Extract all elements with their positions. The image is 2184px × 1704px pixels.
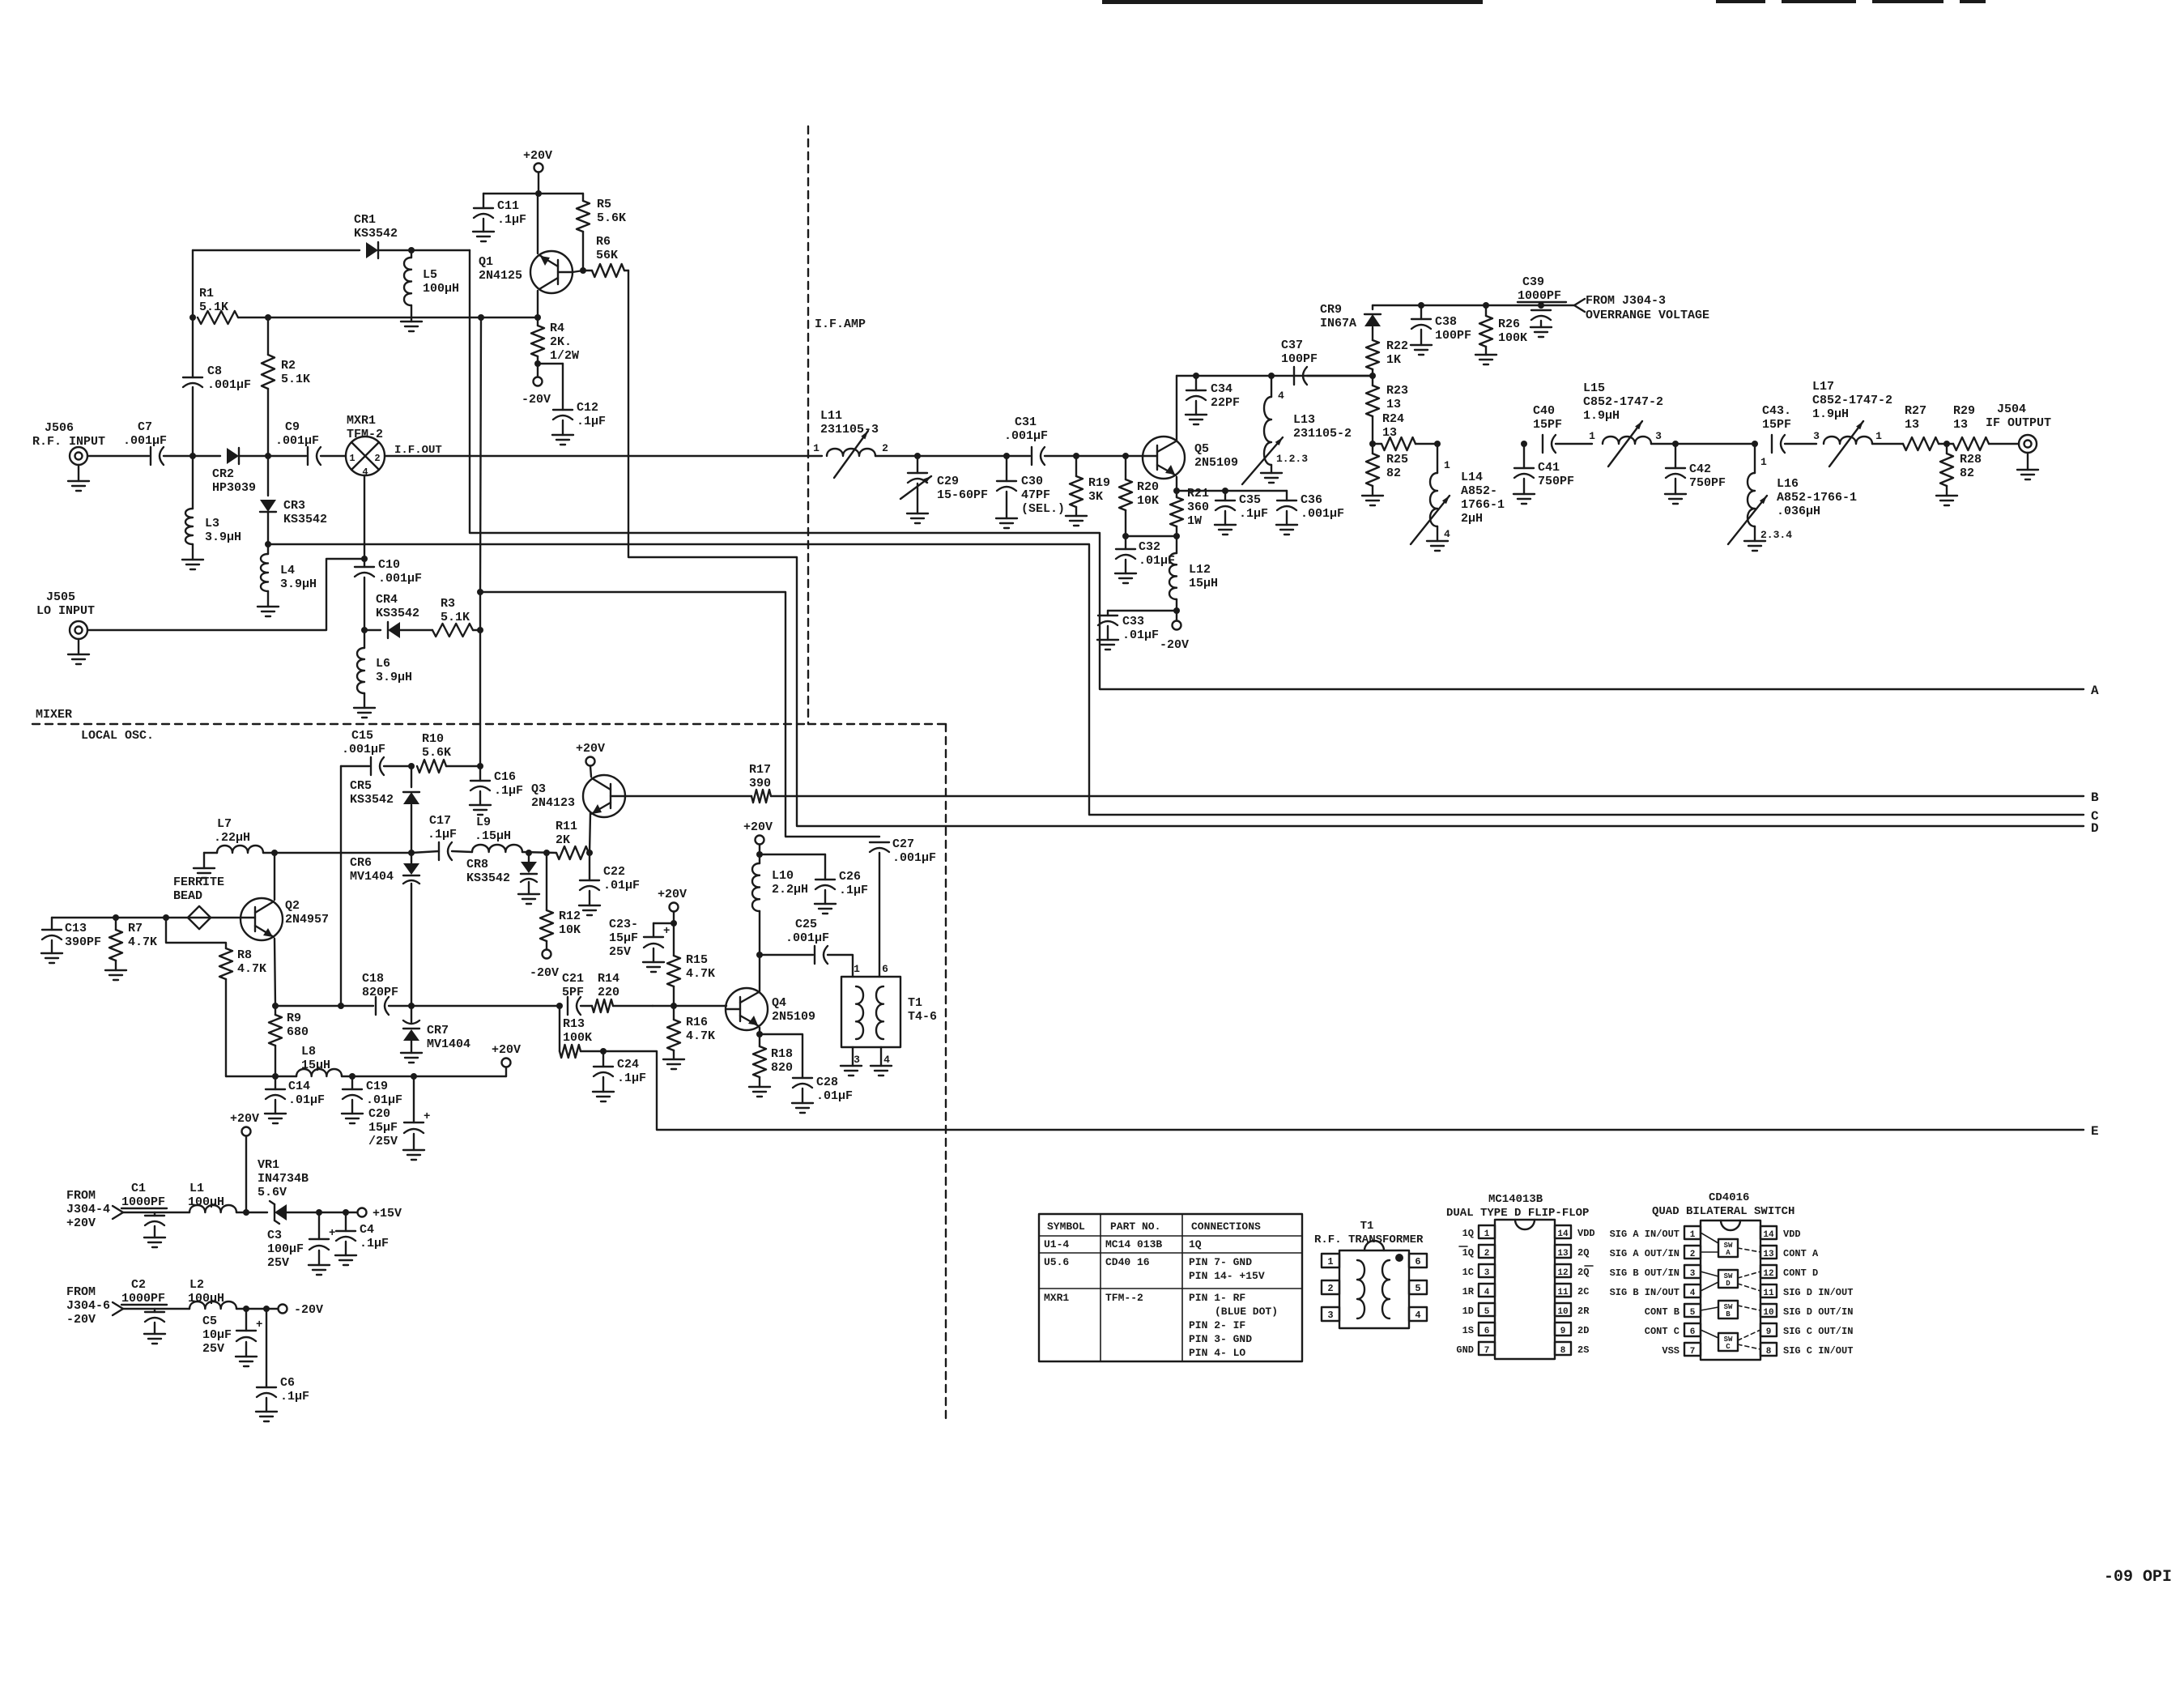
svg-text:KS3542: KS3542 — [354, 227, 398, 241]
svg-text:3: 3 — [854, 1054, 860, 1066]
capacitor C28 .01uF — [760, 1034, 803, 1078]
svg-text:R10: R10 — [422, 732, 444, 746]
svg-text:C30: C30 — [1021, 475, 1043, 488]
svg-text:C33: C33 — [1122, 615, 1144, 628]
svg-text:SIG D OUT/IN: SIG D OUT/IN — [1783, 1306, 1853, 1318]
svg-text:15μF: 15μF — [368, 1121, 398, 1135]
svg-text:.01μF: .01μF — [603, 879, 640, 892]
node junction C34 — [1193, 373, 1199, 379]
inductor L13 231105-2 variable — [1271, 376, 1272, 397]
inductor L14 A852-1766-1 2uH variable — [1437, 444, 1438, 473]
ground at C1 — [154, 1226, 155, 1238]
svg-text:C23-: C23- — [609, 918, 638, 931]
node junction C29 — [914, 453, 921, 459]
ground at L7 — [204, 852, 217, 854]
svg-text:R1: R1 — [199, 287, 214, 300]
node junction C42 — [1672, 441, 1679, 447]
ground at C5 — [245, 1342, 247, 1357]
capacitor C19 .01uF — [351, 1076, 353, 1089]
ground at R28 — [1946, 486, 1948, 496]
svg-text:7: 7 — [1484, 1346, 1490, 1356]
svg-text:.036μH: .036μH — [1777, 505, 1820, 518]
svg-text:5.6K: 5.6K — [597, 211, 626, 225]
svg-text:56K: 56K — [596, 249, 618, 262]
diode CR2 HP3039 — [193, 455, 220, 457]
svg-text:C24: C24 — [617, 1058, 639, 1071]
svg-text:680: 680 — [287, 1025, 309, 1039]
capacitor C14 .01uF — [275, 1076, 276, 1089]
bus D from R6 — [628, 271, 2084, 826]
capacitor C24 .1uF — [602, 1051, 604, 1067]
svg-text:C1: C1 — [131, 1182, 146, 1195]
svg-text:KS3542: KS3542 — [466, 871, 510, 885]
diode CR5 KS3542 — [411, 766, 412, 787]
svg-text:R3: R3 — [441, 597, 455, 611]
svg-text:15μH: 15μH — [301, 1059, 330, 1072]
svg-text:CD4016: CD4016 — [1709, 1191, 1749, 1204]
svg-text:T4-6: T4-6 — [908, 1010, 937, 1024]
svg-text:2N5109: 2N5109 — [1194, 456, 1238, 470]
svg-text:C14: C14 — [288, 1080, 310, 1093]
svg-text:1000PF: 1000PF — [121, 1292, 165, 1306]
terminal -20V below R12 — [546, 941, 547, 949]
inductor L7 .22uH — [217, 846, 263, 853]
svg-text:C34: C34 — [1211, 382, 1232, 396]
dashed boundary MIXER horizontal — [32, 723, 808, 725]
svg-text:4: 4 — [1690, 1289, 1696, 1298]
svg-text:2: 2 — [374, 453, 380, 464]
resistor R22 1K — [1366, 340, 1379, 369]
node junction Q4 emitter — [756, 1031, 763, 1037]
node junction C10 top / mixer pin4 — [361, 556, 368, 562]
svg-text:C4: C4 — [360, 1223, 374, 1237]
capacitor C15 .001uF — [341, 765, 369, 767]
svg-text:R28: R28 — [1960, 453, 1982, 466]
node junction CR3/L4/bus C — [265, 541, 271, 547]
svg-text:820: 820 — [771, 1061, 793, 1075]
node junction R7 — [113, 914, 119, 921]
svg-text:A852-1766-1: A852-1766-1 — [1777, 491, 1857, 505]
svg-text:C22: C22 — [603, 865, 625, 879]
svg-text:PIN 4- LO: PIN 4- LO — [1189, 1347, 1245, 1359]
svg-text:Q2: Q2 — [285, 899, 300, 913]
svg-text:OVERRANGE VOLTAGE: OVERRANGE VOLTAGE — [1586, 309, 1709, 322]
ground at L16 — [1754, 526, 1756, 541]
node junction CR5/R10 — [408, 763, 415, 769]
svg-text:C42: C42 — [1689, 462, 1711, 476]
node junction C20 — [411, 1073, 417, 1080]
wire R8 jog — [166, 918, 226, 948]
svg-text:T1: T1 — [1360, 1220, 1374, 1233]
svg-text:4: 4 — [1484, 1288, 1490, 1297]
svg-text:C40: C40 — [1533, 404, 1555, 418]
svg-text:IN67A: IN67A — [1320, 317, 1356, 330]
wire Q3 emitter to R11 node — [590, 813, 590, 853]
svg-text:.15μH: .15μH — [475, 829, 511, 843]
node junction L14 — [1434, 441, 1441, 447]
svg-text:1D: 1D — [1462, 1306, 1474, 1317]
ground at C30 — [1006, 492, 1007, 518]
capacitor C42 750PF — [1675, 444, 1676, 468]
svg-text:Q5: Q5 — [1194, 442, 1209, 456]
svg-text:1Q: 1Q — [1189, 1238, 1202, 1250]
svg-text:R4: R4 — [550, 322, 564, 335]
wire to C26 — [760, 854, 825, 855]
svg-text:CONT A: CONT A — [1783, 1248, 1819, 1259]
svg-text:R17: R17 — [749, 763, 771, 777]
resistor R21 360 1W — [1176, 491, 1177, 497]
svg-text:+: + — [424, 1110, 430, 1123]
svg-text:.001μF: .001μF — [207, 378, 251, 392]
wire C13 to Q2 base — [52, 917, 241, 918]
svg-text:5.1K: 5.1K — [281, 373, 310, 386]
svg-text:MV1404: MV1404 — [427, 1037, 470, 1051]
node junction C35 — [1222, 488, 1228, 494]
svg-text:C35: C35 — [1239, 493, 1261, 507]
ground at J506 — [78, 465, 79, 481]
node junction R19 — [1073, 453, 1079, 459]
svg-text:C28: C28 — [816, 1076, 838, 1089]
svg-text:C8: C8 — [207, 364, 222, 378]
ground at C33 — [1107, 626, 1109, 640]
svg-text:9: 9 — [1560, 1327, 1566, 1336]
ground at C26 — [824, 890, 826, 904]
ground at C20 — [413, 1134, 415, 1150]
svg-text:220: 220 — [598, 986, 619, 999]
capacitor C36 .001uF — [1286, 491, 1288, 501]
capacitor C25 .001uF — [760, 954, 813, 956]
diode CR3 KS3542 — [267, 456, 269, 496]
svg-text:C43.: C43. — [1762, 404, 1791, 418]
svg-text:1: 1 — [349, 453, 355, 464]
svg-text:GND: GND — [1456, 1344, 1474, 1356]
svg-text:231105-2: 231105-2 — [1293, 427, 1352, 441]
transformer T1 T4-6 — [841, 977, 900, 1047]
svg-text:2: 2 — [1484, 1249, 1490, 1259]
svg-text:R19: R19 — [1088, 476, 1110, 490]
inductor L15 C852-1747-2 1.9uH variable — [1603, 437, 1651, 444]
svg-text:.01μF: .01μF — [1122, 628, 1159, 642]
ground at C11 — [483, 219, 484, 232]
svg-text:E: E — [2091, 1124, 2099, 1139]
svg-text:-20V: -20V — [522, 393, 551, 407]
resistor R5 5.6K — [582, 194, 584, 201]
capacitor C27 .001uF — [870, 841, 889, 843]
capacitor C8 .001uF — [192, 387, 194, 456]
capacitor C33 .01uF — [1108, 610, 1177, 611]
capacitor C20 15uF/25V polarized — [413, 1076, 415, 1123]
svg-text:1: 1 — [1690, 1230, 1696, 1240]
svg-text:15PF: 15PF — [1762, 418, 1791, 432]
dashed boundary LOCAL OSC vertical — [945, 724, 947, 1421]
svg-text:.1μF: .1μF — [280, 1390, 309, 1404]
svg-text:5.6V: 5.6V — [258, 1186, 287, 1199]
svg-text:C21: C21 — [562, 972, 584, 986]
svg-text:4.7K: 4.7K — [128, 935, 157, 949]
wire CR1 row left leg — [192, 250, 194, 317]
svg-text:L16: L16 — [1777, 477, 1799, 491]
svg-text:4.7K: 4.7K — [686, 967, 715, 981]
svg-text:1S: 1S — [1462, 1325, 1474, 1336]
svg-text:IN4734B: IN4734B — [258, 1172, 309, 1186]
svg-text:-20V: -20V — [530, 966, 559, 980]
svg-text:2: 2 — [1690, 1250, 1696, 1259]
svg-text:+15V: +15V — [373, 1207, 402, 1220]
svg-text:A: A — [1726, 1249, 1731, 1257]
svg-text:+: + — [663, 925, 670, 938]
wire C31 to Q5 base — [1076, 455, 1157, 457]
svg-text:1Q: 1Q — [1462, 1247, 1474, 1259]
inductor L12 15uH — [1176, 536, 1177, 553]
svg-text:KS3542: KS3542 — [350, 793, 394, 807]
svg-text:6: 6 — [1415, 1256, 1420, 1267]
node junction C39 — [1538, 302, 1544, 309]
ground at J505 — [78, 639, 79, 654]
svg-text:4.7K: 4.7K — [686, 1029, 715, 1043]
svg-text:VDD: VDD — [1577, 1228, 1595, 1239]
svg-text:R24: R24 — [1382, 412, 1404, 426]
emitter bypass row — [1177, 490, 1287, 492]
svg-text:.1μF: .1μF — [360, 1237, 389, 1250]
svg-text:-20V: -20V — [66, 1313, 96, 1327]
svg-text:D: D — [1726, 1280, 1731, 1288]
svg-text:25V: 25V — [609, 945, 631, 959]
ground at R7 — [115, 961, 117, 970]
svg-text:13: 13 — [1905, 418, 1919, 432]
svg-text:3: 3 — [1327, 1310, 1333, 1321]
svg-text:.001μF: .001μF — [275, 434, 319, 448]
node junction CR5/CR6 — [408, 850, 415, 856]
CD4016 internal switches — [1718, 1239, 1738, 1257]
svg-text:100μH: 100μH — [188, 1195, 224, 1209]
svg-text:D: D — [2091, 821, 2099, 836]
dashed boundary corner to LOCAL OSC — [808, 723, 946, 725]
bus E from C24 node — [603, 1051, 2084, 1130]
node junction C21/R13 — [556, 1003, 563, 1009]
svg-text:L4: L4 — [280, 564, 295, 577]
svg-text:CR7: CR7 — [427, 1024, 449, 1037]
svg-text:+: + — [256, 1318, 262, 1331]
svg-text:13: 13 — [1953, 418, 1968, 432]
wire T1 pin4 ground — [880, 1047, 882, 1066]
transistor Q4 2N5109 — [726, 988, 768, 1030]
svg-text:-09 OPI: -09 OPI — [2104, 1568, 2172, 1587]
ground at R16 — [673, 1050, 675, 1059]
svg-text:A: A — [2091, 684, 2099, 698]
capacitor C21 5PF — [567, 997, 568, 1015]
svg-text:82: 82 — [1386, 466, 1401, 480]
svg-text:R18: R18 — [771, 1047, 793, 1061]
svg-text:3.9μH: 3.9μH — [205, 530, 241, 544]
ground at C6 — [266, 1398, 267, 1412]
svg-text:TFM-2: TFM-2 — [347, 428, 383, 441]
svg-text:SIG B IN/OUT: SIG B IN/OUT — [1610, 1287, 1680, 1298]
resistor R26 100K — [1485, 305, 1487, 316]
svg-text:TFM--2: TFM--2 — [1105, 1292, 1143, 1304]
ground at C38 — [1420, 330, 1422, 345]
svg-text:1W: 1W — [1187, 514, 1202, 528]
svg-text:1: 1 — [1484, 1229, 1490, 1239]
resistor R29 13 — [1953, 437, 1989, 450]
node junction R22/R23 — [1369, 373, 1376, 379]
wire R3 node to C16 node — [479, 592, 481, 766]
svg-text:R29: R29 — [1953, 404, 1975, 418]
ground at C41 — [1523, 479, 1525, 494]
resistor R3 5.1K — [432, 624, 473, 637]
capacitor C40 15PF — [1542, 435, 1543, 453]
svg-text:C36: C36 — [1301, 493, 1322, 507]
transistor Q5 2N5109 — [1143, 437, 1185, 479]
svg-text:PIN 3- GND: PIN 3- GND — [1189, 1333, 1252, 1345]
capacitor C13 390PF — [51, 918, 53, 930]
svg-text:2N5109: 2N5109 — [772, 1010, 815, 1024]
svg-text:C20: C20 — [368, 1107, 390, 1121]
wire T1 pin3 ground — [852, 1047, 854, 1066]
svg-text:MV1404: MV1404 — [350, 870, 394, 884]
svg-text:L6: L6 — [376, 657, 390, 671]
svg-text:7: 7 — [1690, 1347, 1696, 1357]
terminal -20V — [279, 1305, 287, 1314]
svg-text:DUAL TYPE D FLIP-FLOP: DUAL TYPE D FLIP-FLOP — [1446, 1207, 1589, 1220]
zener diode VR1 IN4734B 5.6V — [275, 1204, 287, 1220]
node junction C3 — [316, 1209, 322, 1216]
svg-text:R11: R11 — [556, 820, 577, 833]
svg-text:C27: C27 — [892, 837, 914, 851]
svg-text:2C: 2C — [1577, 1286, 1589, 1297]
svg-text:C5: C5 — [202, 1314, 217, 1328]
ground at C23 — [653, 948, 654, 962]
inductor L3 3.9uH — [192, 456, 194, 509]
svg-text:C19: C19 — [366, 1080, 388, 1093]
svg-text:+: + — [329, 1227, 335, 1240]
capacitor C22 .01uF — [589, 853, 590, 880]
svg-text:10: 10 — [1763, 1308, 1773, 1318]
node junction C19 — [349, 1073, 355, 1080]
inductor L9 .15uH — [472, 845, 522, 852]
svg-text:100μH: 100μH — [188, 1292, 224, 1306]
ground at R26 — [1485, 347, 1487, 355]
svg-text:82: 82 — [1960, 466, 1974, 480]
svg-text:CR4: CR4 — [376, 593, 398, 607]
svg-text:(BLUE DOT): (BLUE DOT) — [1215, 1306, 1278, 1318]
svg-text:13: 13 — [1557, 1249, 1569, 1259]
terminal -20V below L12 — [1176, 611, 1177, 620]
svg-text:1.9μH: 1.9μH — [1812, 407, 1849, 421]
svg-text:4: 4 — [1278, 390, 1284, 402]
svg-text:B: B — [1726, 1310, 1731, 1318]
transistor Q3 2N4123 — [583, 775, 625, 817]
svg-text:T1: T1 — [908, 996, 922, 1010]
node junction CR8 top — [526, 850, 532, 856]
node junction C25 row — [756, 952, 763, 958]
ground at L3 — [192, 544, 194, 560]
svg-text:R20: R20 — [1137, 480, 1159, 494]
ground at C12 — [562, 420, 564, 435]
capacitor C39 1000PF — [1531, 309, 1551, 311]
svg-text:2D: 2D — [1577, 1325, 1589, 1336]
svg-text:L17: L17 — [1812, 380, 1834, 394]
svg-text:.001μF: .001μF — [1004, 429, 1048, 443]
svg-text:R7: R7 — [128, 922, 143, 935]
svg-text:C: C — [1726, 1343, 1731, 1351]
node junction C38 — [1418, 302, 1424, 309]
svg-text:.1μF: .1μF — [428, 828, 457, 841]
svg-text:2S: 2S — [1577, 1344, 1589, 1356]
svg-text:SYMBOL: SYMBOL — [1047, 1220, 1085, 1233]
ground at C36 — [1286, 511, 1288, 525]
inductor L11 231105-3 variable — [827, 449, 875, 456]
capacitor C5 10uF 25V polarized — [245, 1309, 247, 1331]
svg-text:100μH: 100μH — [423, 282, 459, 296]
parts table — [1039, 1214, 1302, 1361]
svg-text:1C: 1C — [1462, 1267, 1474, 1278]
node junction Q5 emitter — [1173, 488, 1180, 494]
svg-text:A852-: A852- — [1461, 484, 1497, 498]
resistor R10 5.6K — [417, 760, 446, 773]
svg-text:1: 1 — [1760, 456, 1767, 468]
svg-text:Q1: Q1 — [479, 255, 493, 269]
svg-text:47PF: 47PF — [1021, 488, 1050, 502]
svg-text:C9: C9 — [285, 420, 300, 434]
svg-text:1R: 1R — [1462, 1286, 1475, 1297]
ground at L14 — [1437, 526, 1438, 541]
svg-text:C39: C39 — [1522, 275, 1544, 289]
svg-text:14: 14 — [1763, 1230, 1774, 1240]
svg-text:1Q: 1Q — [1462, 1228, 1474, 1239]
svg-text:.1μF: .1μF — [497, 213, 526, 227]
node junction CR6/CR7/C18 — [408, 1003, 415, 1009]
inductor L6 3.9uH — [364, 630, 365, 648]
node junction R11/C22/Q3 emitter — [586, 850, 593, 856]
node junction R21 bottom — [1173, 533, 1180, 539]
svg-text:13: 13 — [1763, 1250, 1774, 1259]
ground at C24 — [602, 1077, 604, 1092]
wire mixer IF out to L11 — [385, 455, 822, 457]
node junction R4 bottom — [534, 360, 541, 367]
wire Q3 base to R17 — [625, 795, 751, 797]
svg-text:.001μF: .001μF — [892, 851, 936, 865]
svg-text:PIN 2- IF: PIN 2- IF — [1189, 1319, 1245, 1331]
resistor R28 82 — [1946, 444, 1948, 454]
svg-text:11: 11 — [1557, 1288, 1569, 1297]
inductor L5 100uH — [404, 258, 411, 305]
ground at C32 — [1125, 560, 1126, 573]
mixer MXR1 TFM-2 — [346, 437, 385, 475]
svg-text:/25V: /25V — [368, 1135, 398, 1148]
ground at CR7 — [411, 1041, 412, 1053]
capacitor C17 .1uF — [411, 851, 439, 853]
node junction CR4/L6 — [361, 627, 368, 633]
svg-text:R.F. INPUT: R.F. INPUT — [32, 435, 105, 449]
wire R8 to L8 row — [225, 979, 227, 1076]
ground at C19 — [351, 1100, 353, 1114]
node junction R1/C8/CR1 — [189, 314, 196, 321]
node junction L10 top — [756, 851, 763, 858]
svg-text:360: 360 — [1187, 501, 1209, 514]
svg-text:J506: J506 — [45, 421, 74, 435]
svg-text:C17: C17 — [429, 814, 451, 828]
svg-text:KS3542: KS3542 — [376, 607, 419, 620]
svg-text:L2: L2 — [189, 1278, 204, 1292]
svg-text:C6: C6 — [280, 1376, 295, 1390]
svg-text:750PF: 750PF — [1538, 475, 1574, 488]
resistor R27 13 — [1903, 437, 1939, 450]
svg-text:R.F. TRANSFORMER: R.F. TRANSFORMER — [1314, 1233, 1424, 1246]
svg-text:I.F.OUT: I.F.OUT — [394, 444, 442, 457]
wire Q2 emitter down — [275, 939, 275, 1006]
svg-text:6: 6 — [1690, 1327, 1696, 1337]
wire C18 node to C21 node — [411, 1005, 560, 1007]
